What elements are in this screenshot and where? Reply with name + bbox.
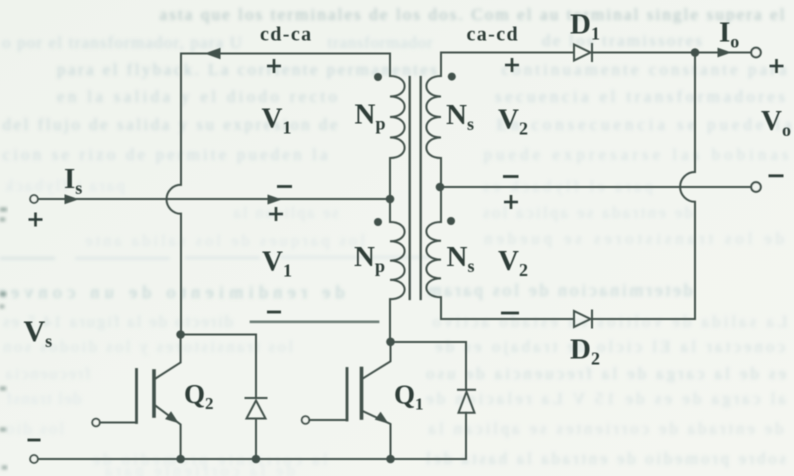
- svg-text:ca-cd: ca-cd: [467, 24, 520, 46]
- transformer primary winding Np (bottom): [390, 222, 405, 299]
- transformer primary winding Np (top): [390, 76, 405, 158]
- phase dot: secondary top: [448, 73, 456, 81]
- label + (input): [29, 213, 43, 227]
- transistor Q1: gate lead: [309, 419, 347, 421]
- label - (output): [769, 174, 784, 177]
- svg-text:cd-ca: cd-ca: [260, 24, 313, 46]
- phase dot: primary top: [374, 73, 382, 81]
- wire: secondary center tap to output negative terminal: [441, 186, 751, 188]
- svg-text:determinacion de los param: determinacion de los param: [428, 280, 693, 300]
- label + (V2 bottom): [504, 195, 518, 209]
- left page-edge scan marks: [0, 208, 7, 469]
- terminal: input negative: [30, 455, 38, 463]
- transistor Q2: collector lead: [154, 335, 181, 380]
- phase dot: secondary bottom: [447, 217, 455, 225]
- wire: primary center-tap stem: [389, 158, 391, 222]
- diode D2: [574, 311, 592, 328]
- transistor Q2: emitter lead: [154, 405, 181, 460]
- wire: D1 cathode to output node: [592, 52, 751, 54]
- terminal: input positive (Is): [30, 195, 38, 203]
- phase dot: primary bottom: [374, 218, 382, 226]
- wire: input from Is terminal to primary center tap: [38, 198, 385, 200]
- transistor Q2: body bar: [152, 371, 156, 416]
- terminal: output negative: [751, 182, 761, 192]
- transformer secondary winding Ns (bottom): [426, 222, 441, 297]
- wire: bottom rail: [38, 458, 466, 460]
- transistor Q1: emitter lead: [362, 411, 391, 460]
- svg-text:del transf: del transf: [6, 389, 81, 408]
- transistor Q2: gate lead: [100, 422, 137, 424]
- wire: left vertical of cd-ca loop (with hop gap): [181, 54, 390, 335]
- node: primary center tap: [386, 195, 395, 204]
- transistor Q1: gate bar: [346, 369, 349, 421]
- svg-text:de los tramissores: de los tramissores: [542, 31, 702, 50]
- wire: Q2 diode anode to rail: [255, 419, 257, 460]
- diode D1: [574, 44, 592, 61]
- transformer secondary winding Ns (top): [426, 76, 441, 158]
- wire hop: right vertical over center-tap wire: [680, 172, 695, 202]
- transistor Q1: gate terminal circle: [302, 416, 310, 424]
- label + (V1 bottom): [269, 207, 283, 221]
- wire hop: left vertical over input wire: [167, 185, 181, 214]
- node: Q1 emitter on rail: [386, 455, 395, 464]
- svg-text:los parques de los salida ante: los parques de los salida ante: [85, 231, 365, 250]
- diode across Q1 (triangle): [459, 392, 475, 413]
- label + (output): [770, 59, 784, 73]
- node: secondary center tap: [436, 183, 445, 192]
- svg-text:los dio: los dio: [6, 419, 64, 438]
- svg-text:transformador: transformador: [328, 33, 433, 52]
- svg-text:asta que los terminales de los: asta que los terminales de los dos. Com …: [159, 5, 784, 24]
- wire: secondary bottom lead and bottom run to D2 anode: [441, 297, 574, 319]
- transistor Q2: gate bar: [135, 370, 138, 423]
- svg-text:frecuencia: frecuencia: [5, 364, 90, 383]
- svg-text:de entrada de corrientes se ap: de entrada de corrientes se aplican la: [428, 419, 783, 438]
- heading rule artifact under V1: [251, 320, 378, 323]
- transistor Q1: collector lead: [362, 342, 391, 380]
- wire: secondary top lead: [440, 53, 442, 77]
- transformer core: [410, 77, 421, 299]
- wire: secondary top to D1 anode: [441, 52, 574, 54]
- wire: Q2 collector node to antiparallel diode top: [181, 335, 256, 399]
- current arrow on cd-ca loop (pointing left): [205, 48, 221, 59]
- diode across Q2 (triangle): [247, 401, 266, 419]
- label + (V2 top): [505, 58, 519, 72]
- svg-text:La salida de voltios en estado: La salida de voltios en estado activo: [433, 312, 788, 331]
- current arrow Is (left): [65, 194, 80, 204]
- diode across Q1 (cathode bar): [458, 389, 475, 391]
- label - (V2 bottom): [501, 312, 519, 315]
- wire: secondary center-tap stem: [440, 158, 442, 222]
- svg-text:secuencia el transformadores: secuencia el transformadores: [495, 87, 785, 106]
- diode across Q2 (cathode bar): [246, 397, 267, 399]
- svg-text:sobre promedio de entrada la h: sobre promedio de entrada la hasta del: [426, 449, 786, 468]
- transistor Q1: body bar: [360, 369, 364, 419]
- terminal: output positive: [751, 48, 761, 58]
- svg-text:continuamente constante para: continuamente constante para: [502, 60, 787, 79]
- current arrow into center tap (right): [268, 195, 283, 205]
- node: Q2 collector junction: [176, 330, 185, 339]
- label - (V2 top): [503, 175, 519, 178]
- wire: D2 cathode to right vertical (with hop gap): [592, 53, 695, 320]
- label - (V1 top): [277, 185, 292, 188]
- node: Q2 emitter on rail: [176, 455, 185, 464]
- svg-text:de entrada se aplica los: de entrada se aplica los: [483, 203, 693, 222]
- label - (input): [28, 439, 41, 442]
- node: Q2 diode anode on rail: [252, 455, 261, 464]
- current arrow Io: [718, 48, 732, 58]
- svg-text:o por el transformador, para U: o por el transformador, para U: [2, 33, 242, 52]
- transistor Q2: emitter arrow: [165, 411, 179, 423]
- node: D1/output junction: [691, 48, 700, 57]
- wire: Q1 diode anode to rail: [465, 413, 467, 459]
- label - (V1 bottom): [267, 311, 281, 314]
- wire: Q1 collector node to antiparallel diode top: [391, 342, 467, 390]
- label + (V1 top): [267, 59, 281, 73]
- transistor Q2: gate terminal circle: [92, 419, 100, 427]
- wire: primary bottom lead to Q1 collector node: [389, 299, 391, 342]
- node: Q1 collector junction: [386, 338, 395, 347]
- transistor Q1: emitter arrow: [375, 412, 389, 424]
